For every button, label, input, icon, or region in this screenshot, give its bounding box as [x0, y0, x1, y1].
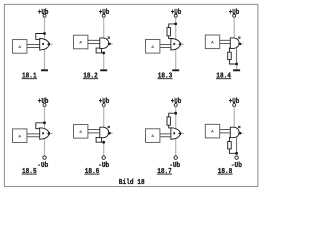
amplifier box A (18.8): [205, 124, 219, 138]
junction node 18.1: [43, 32, 46, 35]
collector mark (18.6): [108, 126, 110, 128]
transistor symbol (18.3): [171, 39, 180, 51]
wire emitter rail 18.8: [236, 153, 238, 155]
+Ub terminal 18.6: [102, 104, 105, 107]
svg-text:-Ub: -Ub: [231, 162, 242, 170]
svg-text:A: A: [211, 39, 214, 44]
junction node 18.2: [102, 52, 105, 55]
amplifier box A (18.1): [13, 40, 27, 54]
svg-text:18.1: 18.1: [22, 73, 37, 81]
wire emitter stub 18.6: [101, 137, 103, 142]
wire emitter branch 18.4: [229, 48, 232, 52]
wire input pair 18.7: [160, 133, 171, 135]
+Ub terminal 18.8: [233, 104, 236, 107]
+Ub terminal 18.3: [174, 14, 177, 17]
+Ub terminal 18.1: [43, 14, 46, 17]
svg-text:A: A: [18, 133, 21, 138]
ground 18.2: [100, 69, 107, 71]
amplifier box A (18.5): [13, 129, 27, 143]
amplifier box A (18.6): [74, 125, 88, 139]
amplifier box A (18.7): [146, 129, 160, 143]
amplifier box A (18.3): [146, 40, 160, 54]
wire input pair 18.8: [220, 129, 231, 131]
wire emitter drop 18.4: [236, 49, 238, 64]
wire resistor to base 18.3: [169, 36, 173, 39]
wire +Ub rail 18.7: [175, 107, 177, 114]
wire +Ub rail 18.8: [233, 107, 235, 128]
wire collector rail 18.1: [44, 34, 46, 70]
base region mark (18.5): [42, 132, 44, 134]
transistor symbol (18.6): [100, 127, 109, 138]
svg-text:18.4: 18.4: [216, 73, 231, 81]
svg-text:18.7: 18.7: [157, 168, 172, 176]
wire collector rail 18.5: [44, 123, 46, 156]
ground 18.3: [172, 69, 179, 71]
svg-text:18.6: 18.6: [85, 168, 100, 176]
emitter arrow (18.5): [47, 132, 50, 135]
junction node 18.7: [174, 112, 177, 115]
transistor symbol (18.4): [230, 38, 239, 49]
emitter arrow (18.3): [178, 43, 181, 46]
wire collector rail 18.7: [175, 113, 177, 156]
-Ub terminal 18.7: [174, 156, 177, 159]
wire emitter rail 18.6: [103, 142, 105, 156]
wire emitter jog 18.2: [96, 48, 104, 53]
transistor symbol (18.7): [171, 128, 180, 140]
collector mark (18.2): [108, 37, 110, 39]
junction node 18.3: [174, 23, 177, 26]
wire +Ub rail 18.1: [44, 17, 46, 33]
emitter arrow (18.7): [178, 132, 181, 135]
svg-text:A: A: [79, 40, 82, 45]
base region mark (18.7): [173, 132, 175, 134]
+Ub terminal 18.2: [102, 14, 105, 17]
wire +Ub rail 18.3: [175, 17, 177, 24]
junction node 18.5: [43, 121, 46, 124]
svg-text:A: A: [211, 129, 214, 134]
svg-text:A: A: [151, 133, 154, 138]
wire input pair 18.6: [88, 129, 100, 131]
svg-text:-Ub: -Ub: [98, 162, 109, 170]
base region mark (18.3): [173, 43, 175, 45]
svg-text:18.3: 18.3: [158, 73, 173, 81]
figure border frame: [4, 4, 258, 186]
transistor symbol (18.5): [40, 128, 49, 140]
amplifier box A (18.2): [74, 35, 88, 49]
+Ub terminal 18.5: [43, 104, 46, 107]
wire emitter jog 18.6: [96, 137, 104, 142]
wire input pair 18.1: [27, 44, 40, 46]
emitter arrow (18.8): [238, 132, 241, 135]
emitter arrow (18.6): [107, 132, 110, 135]
svg-text:A: A: [151, 44, 154, 49]
svg-text:A: A: [18, 44, 21, 49]
wire collector rail 18.3: [175, 24, 177, 70]
wire emitter rail 18.2: [103, 53, 105, 70]
wire input pair 18.4: [220, 39, 231, 41]
svg-text:18.8: 18.8: [218, 168, 233, 176]
wire emitter rail 18.4: [236, 64, 238, 70]
resistor 18.8: [228, 142, 232, 149]
ground 18.4: [233, 69, 240, 71]
wire emitter branch 18.8: [229, 137, 232, 141]
collector mark (18.4): [239, 37, 241, 39]
wire resistor to rail 18.8: [229, 149, 236, 153]
wire resistor to base 18.7: [169, 125, 173, 128]
emitter arrow (18.4): [238, 43, 241, 46]
svg-text:Bild 18: Bild 18: [119, 179, 145, 187]
svg-text:18.5: 18.5: [22, 168, 37, 176]
emitter arrow (18.2): [107, 43, 110, 46]
wire +Ub rail 18.6: [103, 107, 105, 128]
wire emitter stub 18.2: [101, 48, 103, 53]
amplifier box A (18.4): [205, 35, 219, 49]
transistor symbol (18.8): [230, 127, 239, 138]
collector mark (18.8): [239, 126, 241, 128]
base region mark (18.1): [42, 43, 44, 45]
+Ub terminal 18.7: [174, 104, 177, 107]
junction node 18.8: [235, 152, 238, 155]
wire +Ub rail 18.4: [233, 17, 235, 38]
transistor symbol (18.1): [40, 39, 49, 51]
wire input pair 18.3: [160, 44, 171, 46]
+Ub terminal 18.4: [233, 14, 236, 17]
junction node 18.6: [102, 141, 105, 144]
transistor symbol (18.2): [100, 38, 109, 49]
resistor 18.7: [167, 117, 170, 125]
emitter arrow (18.1): [47, 43, 50, 46]
wire emitter drop 18.8: [236, 138, 238, 153]
resistor 18.4: [228, 52, 232, 59]
-Ub terminal 18.6: [102, 156, 105, 159]
wire input pair 18.2: [88, 39, 100, 41]
wire resistor branch 18.7: [169, 113, 176, 117]
svg-text:-Ub: -Ub: [37, 162, 48, 170]
resistor 18.3: [167, 28, 170, 36]
svg-text:A: A: [79, 129, 82, 134]
wire input pair 18.5: [27, 133, 40, 135]
ground 18.1: [41, 69, 48, 71]
svg-text:18.2: 18.2: [83, 73, 98, 81]
-Ub terminal 18.8: [235, 156, 238, 159]
wire resistor to rail 18.4: [229, 60, 236, 64]
wire feedback jog 18.1: [36, 34, 45, 40]
-Ub terminal 18.5: [43, 156, 46, 159]
wire feedback jog 18.5: [36, 123, 45, 129]
wire +Ub rail 18.2: [103, 17, 105, 38]
wire +Ub rail 18.5: [44, 107, 46, 123]
junction node 18.4: [235, 63, 238, 66]
wire resistor branch 18.3: [169, 24, 176, 28]
